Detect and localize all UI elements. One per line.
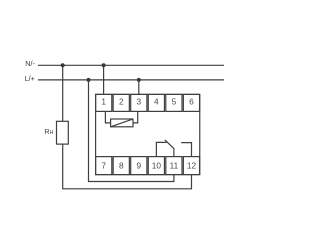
coil K1 bbox=[111, 119, 133, 127]
terminal 8 bbox=[113, 157, 129, 175]
node junction N to terminal 1 bbox=[102, 63, 106, 67]
terminal 7 bbox=[96, 157, 112, 175]
svg-text:10: 10 bbox=[152, 161, 162, 171]
terminal 4 bbox=[148, 94, 164, 111]
svg-text:5: 5 bbox=[172, 97, 177, 107]
contact blade bbox=[165, 140, 174, 149]
terminal 2 bbox=[113, 94, 129, 111]
node junction N to RH bbox=[61, 63, 65, 67]
wire N rail down to resistor RH bbox=[62, 65, 64, 121]
terminal 12 bbox=[183, 157, 199, 175]
wire L/+ rail bbox=[38, 79, 224, 81]
wire N rail to terminal 1 bbox=[103, 65, 105, 94]
svg-text:7: 7 bbox=[101, 161, 106, 171]
terminal 5 bbox=[166, 94, 182, 111]
svg-text:6: 6 bbox=[189, 97, 194, 107]
svg-text:11: 11 bbox=[170, 161, 179, 171]
wire coil to terminal 3 bbox=[133, 111, 138, 123]
terminal 6 bbox=[183, 94, 199, 111]
svg-text:12: 12 bbox=[187, 161, 197, 171]
svg-text:4: 4 bbox=[154, 97, 159, 107]
wire RH bottom to terminal 12 bbox=[63, 144, 192, 189]
terminal 11 bbox=[166, 157, 182, 175]
svg-text:3: 3 bbox=[136, 97, 141, 107]
terminal 1 bbox=[96, 94, 112, 111]
svg-text:2: 2 bbox=[119, 97, 124, 107]
wire N/- rail bbox=[38, 64, 224, 66]
coil K1 diagonal bbox=[111, 119, 133, 127]
svg-text:8: 8 bbox=[119, 161, 124, 171]
terminal 10 bbox=[148, 157, 164, 175]
svg-text:L/+: L/+ bbox=[25, 74, 35, 83]
terminal 3 bbox=[131, 94, 147, 111]
resistor RH value label bbox=[44, 127, 53, 136]
contact fixed lead from terminal 12 bbox=[181, 143, 191, 157]
wire terminal 1 to coil bbox=[105, 111, 110, 123]
svg-text:9: 9 bbox=[136, 161, 141, 171]
device body outline bbox=[96, 94, 200, 174]
svg-text:H: H bbox=[50, 130, 54, 136]
node junction L to terminal 11 bbox=[87, 78, 91, 82]
svg-text:N/-: N/- bbox=[25, 59, 35, 68]
contact common lead to terminal 11 bbox=[173, 148, 175, 156]
terminal 9 bbox=[131, 157, 147, 175]
contact fixed lead from terminal 10 bbox=[156, 142, 166, 156]
resistor RH bbox=[57, 121, 69, 144]
node junction L to terminal 3 bbox=[137, 78, 141, 82]
wire L rail down and under device to terminal 11 bbox=[89, 80, 174, 182]
wire L rail to terminal 3 bbox=[138, 80, 140, 95]
svg-text:1: 1 bbox=[101, 97, 106, 107]
